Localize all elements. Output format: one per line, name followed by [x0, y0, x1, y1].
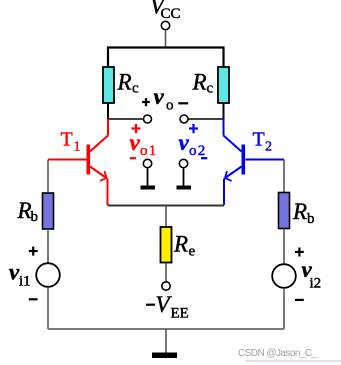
svg-text:b: b	[31, 209, 39, 225]
svg-text:R: R	[173, 232, 188, 257]
svg-text:CSDN @Jason_C_: CSDN @Jason_C_	[238, 348, 318, 359]
svg-text:o: o	[166, 98, 174, 114]
svg-text:o2: o2	[189, 143, 206, 159]
svg-text:v: v	[179, 130, 190, 155]
label VCC	[150, 0, 181, 22]
svg-text:i1: i1	[19, 274, 31, 290]
svg-text:R: R	[17, 198, 32, 223]
transistor T1	[48, 119, 108, 205]
terminal vo-	[180, 115, 188, 123]
svg-text:c: c	[207, 81, 214, 97]
svg-text:R: R	[292, 199, 307, 224]
wire node to vo+ terminal	[108, 118, 144, 120]
minus sign vo	[178, 102, 188, 104]
svg-text:b: b	[307, 211, 315, 227]
ground vo1	[141, 168, 156, 190]
label vo1 (red)	[130, 130, 158, 159]
terminal VCC	[161, 21, 169, 29]
svg-text:R: R	[117, 70, 132, 95]
wire bottom rail	[48, 328, 284, 330]
minus sign vi2	[295, 299, 304, 301]
minus sign vo1 (red)	[130, 157, 136, 159]
watermark CSDN	[238, 348, 341, 361]
wire Rc right bottom to node	[223, 104, 225, 120]
wire Rb right to vi2	[283, 229, 285, 264]
label Rc right	[192, 70, 214, 97]
resistor Rc right	[218, 67, 229, 103]
resistor Rc left	[103, 67, 114, 103]
wire Rc left bottom to node	[107, 104, 109, 120]
source vi2	[272, 264, 296, 288]
resistor Rb right	[279, 193, 290, 229]
resistor Re	[161, 227, 172, 263]
terminal vo+	[144, 115, 152, 123]
label Re	[173, 232, 196, 260]
plus sign vo1 (red)	[132, 124, 141, 133]
label vi1	[9, 260, 31, 290]
plus sign vo	[142, 98, 150, 106]
svg-text:o1: o1	[140, 143, 157, 159]
svg-text:R: R	[192, 70, 207, 95]
wire vi1 to bottom rail	[47, 287, 49, 329]
svg-text:2: 2	[265, 140, 272, 155]
wire bus to Re	[165, 206, 167, 228]
label T1	[61, 129, 81, 155]
svg-text:1: 1	[74, 140, 81, 155]
label vo	[154, 84, 174, 114]
wire T2 base to Rb right	[283, 160, 285, 193]
svg-text:EE: EE	[171, 306, 189, 322]
label Rb right	[292, 199, 315, 227]
plus sign vi1	[29, 247, 38, 256]
label Rc left	[117, 70, 140, 97]
svg-text:CC: CC	[161, 6, 181, 22]
label vo2 (blue)	[179, 130, 207, 159]
wire VCC stem	[165, 30, 167, 48]
plus sign vi2	[295, 248, 304, 257]
svg-text:c: c	[132, 81, 139, 97]
resistor Rb left	[43, 193, 54, 229]
minus sign vi1	[29, 298, 38, 300]
terminal vo2	[179, 159, 187, 167]
label Rb left	[17, 198, 39, 225]
svg-text:v: v	[130, 130, 141, 155]
svg-text:e: e	[189, 244, 196, 260]
terminal -VEE	[162, 282, 170, 290]
svg-text:v: v	[154, 84, 165, 109]
svg-text:i2: i2	[310, 276, 322, 292]
ground bottom	[152, 329, 177, 358]
wire vo- terminal to right node	[188, 118, 224, 120]
terminal vo1	[143, 159, 151, 167]
ground vo2	[177, 168, 192, 190]
wire Re to VEE terminal	[165, 264, 167, 282]
svg-text:T: T	[253, 129, 265, 151]
label vi2	[302, 257, 322, 292]
label T2	[253, 129, 273, 155]
wire Rb left to vi1	[47, 229, 49, 263]
wire emitter bus	[108, 205, 225, 207]
wire vi2 to bottom rail	[283, 288, 285, 329]
plus sign vo2 (blue)	[189, 124, 198, 133]
svg-text:T: T	[61, 129, 73, 151]
minus sign vo2 (blue)	[201, 157, 207, 159]
transistor T2	[224, 119, 285, 205]
source vi1	[36, 263, 60, 287]
wire T1 base to Rb left	[47, 160, 49, 194]
wire top rail	[108, 48, 224, 68]
label -VEE	[146, 292, 189, 322]
